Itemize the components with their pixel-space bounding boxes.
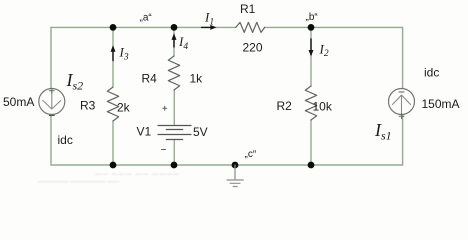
wire V1 minus terminal to bottom rail [173, 140, 175, 166]
junction node dot top at R3 branch [110, 24, 117, 31]
svg-text:150mA: 150mA [422, 97, 460, 111]
svg-text:————— —————— ——: ————— —————— —— [38, 180, 119, 186]
svg-text:R1: R1 [240, 2, 256, 16]
junction node dot bottom V1 [171, 162, 178, 169]
wire right branch upper (top rail down to Is1) [402, 27, 404, 88]
svg-text:„c“: „c“ [245, 149, 257, 160]
wire bottom rail left corner to node below R3 [51, 164, 113, 166]
junction node dot bottom R2 [308, 162, 315, 169]
resistor R3 2k zigzag [107, 87, 118, 121]
wire R4 to V1 plus terminal [173, 90, 175, 125]
current source Is1 minus mark top [399, 91, 404, 93]
battery V1 plate short bottom [166, 139, 182, 141]
svg-text:2k: 2k [117, 101, 131, 115]
battery V1 plate long lower [158, 134, 191, 136]
wire R3 branch lower (R3 to bottom rail) [112, 121, 114, 165]
svg-text:—— ——— —— ————: —— ——— —— ———— [95, 172, 180, 178]
svg-text:R2: R2 [277, 99, 293, 113]
wire R3 branch upper (node a to R3) [112, 27, 114, 87]
resistor R2 10k zigzag [305, 86, 316, 120]
ground stub wire below node c [234, 165, 236, 180]
svg-text:I3: I3 [119, 45, 129, 63]
current source Is2 minus mark bottom [49, 115, 54, 117]
svg-text:I4: I4 [178, 34, 188, 52]
current source Is1 plus mark bottom [399, 114, 404, 119]
wire top rail node a segment [113, 26, 174, 28]
wire bottom rail R3 node to V1 node [113, 164, 174, 166]
wire bottom rail node c to R2 node [235, 164, 311, 166]
svg-text:„a“: „a“ [140, 13, 152, 24]
wire node b to top right corner [311, 26, 403, 28]
junction node dot a at R4 branch [171, 24, 178, 31]
junction node dot b [308, 24, 315, 31]
svg-text:V1: V1 [137, 125, 152, 139]
svg-text:Is2: Is2 [66, 70, 84, 93]
current source Is2 circle [39, 89, 65, 115]
svg-text:R4: R4 [142, 72, 158, 86]
current source Is2 arrow (down) [43, 93, 61, 110]
resistor R1 220 zigzag [236, 22, 265, 32]
svg-text:idc: idc [58, 133, 73, 147]
wire right branch lower (Is1 to bottom rail) [402, 114, 404, 165]
svg-text:„b“: „b“ [306, 12, 318, 23]
svg-text:50mA: 50mA [3, 95, 34, 109]
svg-text:R3: R3 [80, 99, 96, 113]
battery V1 plate short upper [166, 129, 182, 131]
svg-text:I1: I1 [204, 10, 214, 28]
current arrow I1 (right) [202, 26, 212, 28]
ground symbol bars [227, 180, 243, 187]
wire bottom rail V1 node to node c [174, 164, 235, 166]
current source Is1 circle [389, 89, 415, 115]
current arrow I2 (down) [310, 39, 312, 50]
battery V1 plate long top [158, 125, 191, 127]
svg-text:idc: idc [424, 66, 439, 80]
current source Is1 arrow (up) [393, 95, 411, 114]
wire bottom rail R2 node to right corner [311, 164, 403, 166]
svg-text:10k: 10k [313, 100, 333, 114]
svg-text:220: 220 [243, 41, 263, 55]
faint watermark text bottom left [38, 172, 180, 186]
battery V1 minus mark [162, 149, 166, 151]
svg-text:Is1: Is1 [374, 120, 392, 143]
svg-text:I2: I2 [319, 41, 329, 59]
current arrow I3 (up) [112, 52, 114, 61]
junction node dot bottom R3 [110, 162, 117, 169]
wire left branch upper (top rail down to Is2) [50, 27, 52, 88]
junction node dot c [232, 162, 239, 169]
current source Is2 plus mark top [49, 88, 54, 93]
current arrow I4 (up) [173, 40, 175, 47]
wire R4 branch upper (node a to R4) [173, 27, 175, 56]
svg-text:1k: 1k [190, 72, 204, 86]
battery V1 plus mark [163, 106, 167, 110]
wire R1 right lead to node b [265, 26, 311, 28]
wire top rail from left corner to node a left junction [51, 26, 113, 28]
wire R2 branch upper (node b to R2) [310, 27, 312, 86]
wire left branch lower (Is2 to bottom rail) [50, 114, 52, 165]
wire top rail node a to R1 left lead [174, 26, 236, 28]
wire R2 branch lower (R2 to bottom rail) [310, 120, 312, 165]
resistor R4 1k zigzag [168, 56, 179, 90]
svg-text:5V: 5V [193, 125, 208, 139]
